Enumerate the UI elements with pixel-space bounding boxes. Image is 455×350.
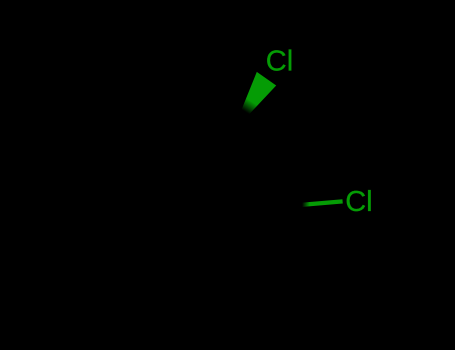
svg-text:Cl: Cl [345,186,372,218]
svg-text:Cl: Cl [266,46,293,78]
